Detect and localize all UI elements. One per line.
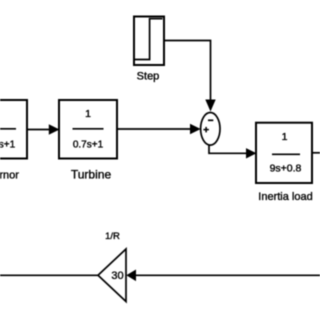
- svg-text:0.7s+1: 0.7s+1: [73, 140, 104, 151]
- transfer-function block Inertia load: [256, 123, 312, 183]
- svg-text:0.2s+1: 0.2s+1: [0, 140, 16, 151]
- svg-text:Governor: Governor: [0, 170, 19, 182]
- wire Turbine to sum: [117, 128, 191, 130]
- wire Governor to Turbine: [27, 129, 50, 131]
- step source block Step: [134, 17, 164, 66]
- arrowhead into Inertia load: [246, 148, 257, 158]
- svg-text:1: 1: [85, 108, 91, 120]
- arrowhead into Turbine: [49, 124, 60, 134]
- svg-text:1: 1: [282, 131, 288, 143]
- svg-text:Turbine: Turbine: [71, 168, 112, 182]
- wire Step output to sum (right then down): [164, 41, 211, 101]
- svg-text:Step: Step: [137, 71, 160, 83]
- arrowhead into sum top (minus input): [205, 100, 215, 112]
- svg-text:Inertia load: Inertia load: [258, 191, 312, 203]
- wire sum output to Inertia load (down then right): [209, 145, 247, 154]
- sum junction: [201, 113, 220, 146]
- svg-text:1/R: 1/R: [105, 231, 120, 242]
- arrowhead into gain (pointing left): [126, 270, 136, 282]
- gain block 1/R (triangle, value 30): [98, 249, 126, 302]
- svg-text:30: 30: [111, 270, 123, 282]
- wire gain output to left edge: [0, 274, 99, 276]
- wire feedback from right edge to gain input: [136, 274, 320, 276]
- wire Inertia load output to right edge: [312, 152, 320, 154]
- transfer-function block Turbine: [59, 100, 117, 159]
- svg-text:9s+0.8: 9s+0.8: [270, 163, 302, 175]
- transfer-function block Governor (clipped at left edge): [0, 100, 27, 159]
- arrowhead into sum left (plus input): [190, 124, 201, 134]
